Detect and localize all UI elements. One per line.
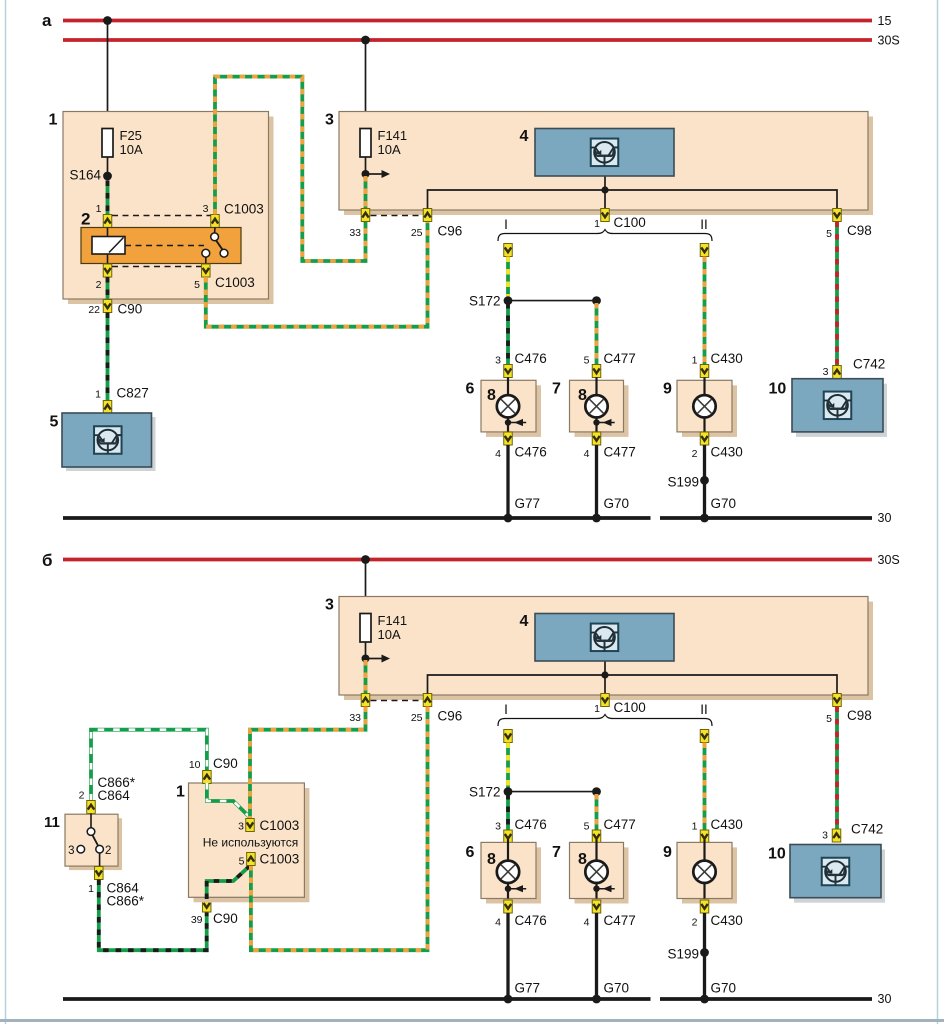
svg-text:F141: F141 [378, 128, 408, 143]
dashed link pins 33-25 [371, 215, 424, 217]
wire relay pin3 to box3 pin33 (green/orange) [215, 77, 366, 261]
svg-text:C476: C476 [515, 445, 547, 460]
svg-text:7: 7 [552, 844, 561, 861]
svg-text:6: 6 [466, 844, 475, 861]
svg-text:а: а [42, 11, 52, 30]
connector C90 pin 39 [202, 899, 211, 912]
lamp unit 9 b [682, 847, 737, 903]
svg-text:I: I [504, 702, 508, 717]
module 4 (blue box) [535, 129, 674, 177]
connector pin 1 C1003 [103, 215, 112, 228]
svg-text:C90: C90 [118, 302, 143, 317]
relay switch lever [216, 240, 223, 250]
relay 2 body [81, 228, 241, 264]
svg-text:4: 4 [584, 448, 590, 460]
svg-text:1: 1 [594, 703, 600, 715]
svg-text:C96: C96 [438, 224, 463, 239]
svg-text:3: 3 [325, 112, 334, 129]
ground wire lamp6 [506, 445, 509, 518]
module 10 icon [824, 392, 852, 420]
internal bus box3 b [428, 675, 838, 694]
box 3 (central junction box) [344, 117, 873, 216]
svg-text:1: 1 [594, 218, 600, 230]
svg-text:C477: C477 [604, 913, 636, 928]
connector pin 33 [361, 209, 370, 222]
svg-text:G70: G70 [711, 496, 737, 511]
ground node G77 [504, 514, 513, 523]
ground wire lamp9 [703, 445, 706, 518]
svg-text:C866*: C866* [107, 894, 145, 909]
switch 11 body [69, 818, 122, 870]
svg-text:C1003: C1003 [215, 275, 255, 290]
connector pin 25 C96 [423, 209, 432, 222]
connector C477 pin4 b [592, 900, 601, 913]
svg-text:4: 4 [495, 448, 501, 460]
svg-text:3: 3 [495, 821, 501, 833]
relay switch contacts [211, 233, 219, 241]
svg-text:10A: 10A [378, 627, 401, 642]
connector C477 pin 4 [592, 432, 601, 445]
svg-text:30S: 30S [878, 34, 900, 48]
svg-text:1: 1 [49, 112, 58, 129]
node S172 b [504, 787, 513, 796]
svg-text:8: 8 [578, 387, 587, 404]
connector C430 pin 1 [700, 365, 709, 378]
bus junction node [601, 186, 608, 193]
svg-text:II: II [700, 217, 708, 232]
connector pin 33 b [361, 694, 370, 707]
switch 11 contacts [87, 828, 95, 836]
svg-text:2: 2 [79, 790, 85, 802]
svg-text:C476: C476 [515, 913, 547, 928]
svg-text:1: 1 [88, 883, 94, 895]
svg-text:10: 10 [189, 759, 201, 771]
ground rail 30 b segment 2 [660, 997, 872, 1001]
svg-text:15: 15 [878, 14, 892, 28]
svg-text:C477: C477 [604, 817, 636, 832]
wire II to C430 b (green/orange) [703, 743, 707, 831]
svg-text:C827: C827 [117, 386, 149, 401]
brace under C100 [498, 230, 712, 242]
svg-text:C98: C98 [847, 223, 872, 238]
node with arrow b [362, 655, 370, 663]
connector C742 pin3 b [832, 829, 841, 842]
svg-text:30S: 30S [878, 553, 900, 567]
svg-text:2: 2 [81, 210, 90, 229]
connector C476 pin4 b [504, 900, 513, 913]
svg-text:3: 3 [325, 597, 334, 614]
internal bus box 3 [428, 190, 838, 209]
wire coil to pin2 [107, 254, 109, 264]
svg-text:33: 33 [349, 227, 361, 239]
svg-text:22: 22 [88, 304, 100, 316]
wire C98 to C742 b (green/red) [835, 707, 839, 830]
svg-text:25: 25 [411, 227, 423, 239]
svg-text:Не используются: Не используются [203, 836, 299, 850]
wire contact to pin1 [99, 853, 101, 866]
svg-text:10A: 10A [378, 142, 401, 157]
wire C98 to C742 (green/red) [835, 222, 839, 366]
module 5 (blue box) [66, 417, 156, 471]
svg-text:3: 3 [203, 203, 209, 215]
wire fuse F141 to node [365, 157, 367, 174]
svg-text:7: 7 [552, 381, 561, 398]
svg-text:4: 4 [520, 613, 529, 630]
svg-text:G77: G77 [515, 981, 541, 996]
svg-text:5: 5 [826, 228, 832, 240]
connector C476 pin3 b [504, 830, 513, 843]
ground wire lamp9 b [703, 913, 706, 999]
relay internal dashed link [125, 245, 204, 247]
svg-text:3: 3 [68, 845, 74, 857]
svg-text:30: 30 [878, 992, 892, 1006]
lamp unit 7 b [575, 847, 629, 903]
wire node to pin33 b (green/orange) [364, 660, 368, 694]
svg-text:1: 1 [692, 355, 698, 367]
svg-text:G70: G70 [604, 981, 630, 996]
wire module4 to C100 b [604, 661, 606, 694]
brace under C100 b [498, 715, 712, 727]
svg-text:б: б [42, 551, 53, 570]
svg-text:6: 6 [466, 381, 475, 398]
svg-text:2: 2 [692, 448, 698, 460]
svg-text:3: 3 [238, 821, 244, 833]
connector C430 pin2 b [700, 900, 709, 913]
ground node G70 lamp7 b [592, 995, 601, 1004]
wire pin3 to switch contact [214, 228, 216, 234]
wire S164 to relay pin 1 (green/black) [106, 181, 110, 215]
ground node G70 lamp7 [592, 514, 601, 523]
svg-text:3: 3 [822, 830, 828, 842]
connector C477 pin5 b [592, 830, 601, 843]
svg-text:S199: S199 [667, 475, 699, 490]
module 4 icon b [591, 624, 619, 652]
wire C90 to C827 (green/black) [106, 313, 110, 401]
svg-text:C430: C430 [711, 817, 743, 832]
connector C100 pin 1 [601, 209, 610, 222]
svg-text:5: 5 [584, 821, 590, 833]
lamp unit 6 b [486, 847, 541, 903]
lamp unit 6 [486, 385, 541, 437]
connector I [504, 244, 513, 257]
connector pin 3 C1003 [211, 215, 220, 228]
wire node to pin 33 (green/orange) [364, 176, 368, 209]
svg-text:C1003: C1003 [224, 202, 264, 217]
svg-text:C742: C742 [853, 357, 885, 372]
svg-text:C864: C864 [98, 788, 131, 803]
svg-text:5: 5 [826, 713, 832, 725]
svg-text:5: 5 [50, 414, 59, 431]
dashed link pins 2-5 [112, 266, 201, 268]
page frame bottom border [0, 1019, 944, 1022]
power rail 15 (red) [63, 19, 872, 23]
svg-text:11: 11 [44, 814, 60, 831]
page frame left border [5, 0, 7, 1024]
wire module4 to bus to C100 [604, 176, 606, 209]
node S199 b [700, 948, 709, 957]
ground wire lamp7 b [595, 913, 598, 999]
svg-text:F25: F25 [120, 128, 142, 143]
module 10 icon b [822, 858, 850, 886]
lamp unit 9 [682, 385, 737, 437]
svg-text:9: 9 [663, 844, 672, 861]
wire S172 to C476 pin3 (green/black) [506, 303, 510, 365]
connector pin 5 C1003 [202, 264, 211, 277]
svg-text:4: 4 [495, 917, 501, 929]
ground wire lamp6 b [506, 913, 509, 999]
node on rail 15 [103, 16, 112, 25]
connector II [700, 244, 709, 257]
wire relay pin5 to C96 pin25 (green/orange) [206, 222, 428, 327]
svg-text:3: 3 [495, 355, 501, 367]
connector C742 pin 3 [833, 366, 842, 379]
svg-text:C90: C90 [213, 756, 238, 771]
svg-text:S199: S199 [667, 947, 699, 962]
connector C90 pin 22 [103, 300, 112, 313]
connector pin 25 C96 b [423, 694, 432, 707]
node at branch [592, 296, 601, 305]
green/orange loop C1003 pin5 to C96 pin25 b [251, 707, 428, 951]
ground node G77 b [504, 995, 513, 1004]
svg-text:1: 1 [96, 203, 102, 215]
box 3 section b [344, 602, 873, 701]
wire C90 pin39 to C1003 pin5 (green/black) [207, 865, 251, 899]
connector switch11 pin 2 [87, 801, 96, 814]
wire branch to C477 pin5 (green/orange) [595, 303, 599, 365]
dashed link pins 1-3 [112, 215, 211, 217]
page frame right border [937, 0, 939, 1024]
wire C90 pin10 to C1003 pin3 (green/white) [207, 783, 249, 817]
fuse F141 10A [360, 129, 371, 158]
connector pin 2 C1003 [103, 264, 112, 277]
svg-text:C430: C430 [711, 351, 743, 366]
node S199 [700, 476, 709, 485]
node on rail 30S [361, 36, 370, 45]
svg-text:33: 33 [349, 712, 361, 724]
svg-text:C430: C430 [711, 913, 743, 928]
svg-text:C100: C100 [614, 215, 646, 230]
svg-text:C98: C98 [847, 708, 872, 723]
svg-text:8: 8 [487, 387, 496, 404]
node S172 [504, 296, 513, 305]
ground rail 30 b segment 1 [63, 997, 651, 1001]
ground rail 30 segment 1 [63, 516, 651, 520]
svg-text:C477: C477 [604, 351, 636, 366]
connector C476 pin 3 [504, 365, 513, 378]
svg-text:1: 1 [95, 389, 101, 401]
svg-text:2: 2 [96, 279, 102, 291]
svg-text:C477: C477 [604, 445, 636, 460]
wire rail15 to fuse F25 [107, 21, 109, 129]
connector switch11 pin 1 [95, 867, 104, 880]
module 4 icon [591, 139, 619, 167]
branch node b [592, 787, 601, 796]
module 10 (blue box) [796, 384, 887, 437]
svg-text:F141: F141 [378, 613, 408, 628]
connector C90 pin 10 [203, 771, 212, 784]
svg-text:I: I [504, 217, 508, 232]
branch wire b [508, 791, 597, 793]
wire fuse to node b [365, 642, 367, 659]
svg-text:30: 30 [878, 511, 892, 525]
wire pin1 to coil [107, 228, 109, 237]
wire fuse F25 to S164 [107, 157, 109, 172]
svg-text:C476: C476 [515, 351, 547, 366]
green/orange loop pin33 to C1003 pin3 b [250, 707, 366, 819]
box 1 (fuse/relay unit) [68, 117, 274, 305]
svg-text:C100: C100 [614, 700, 646, 715]
connector C1003 pin 5 b [247, 853, 256, 866]
wire switch11 pin2 to C90 pin10 (green/white) [91, 730, 207, 801]
connector I b [504, 730, 513, 743]
fuse F25 10A [102, 129, 113, 158]
svg-text:1: 1 [176, 784, 185, 801]
svg-text:C1003: C1003 [260, 818, 300, 833]
svg-text:C96: C96 [438, 709, 463, 724]
svg-text:C430: C430 [711, 445, 743, 460]
svg-text:4: 4 [584, 917, 590, 929]
svg-text:8: 8 [578, 851, 587, 868]
module 10 b (blue box) [794, 850, 885, 903]
wire pin2 to C90 (green/black) [106, 277, 110, 300]
svg-text:C90: C90 [213, 911, 238, 926]
connector C430 pin1 b [700, 830, 709, 843]
connector C476 pin 4 [504, 432, 513, 445]
svg-text:C1003: C1003 [260, 852, 300, 867]
svg-text:4: 4 [520, 128, 529, 145]
svg-text:39: 39 [191, 914, 203, 926]
svg-text:5: 5 [239, 856, 245, 868]
svg-text:G77: G77 [515, 496, 541, 511]
connector C477 pin 5 [592, 365, 601, 378]
connector C100 pin1 b [601, 694, 610, 707]
svg-text:1: 1 [692, 821, 698, 833]
power rail 30S section b (red) [63, 558, 872, 562]
lamp unit 7 [575, 385, 629, 437]
svg-text:8: 8 [487, 851, 496, 868]
wire I to S172 (green/yellow) [506, 257, 510, 299]
relay coil [92, 237, 125, 255]
connector II b [700, 730, 709, 743]
wire branch to C477 b (green/orange) [595, 794, 599, 830]
svg-text:10A: 10A [120, 142, 143, 157]
dashed link 33-25 b [371, 700, 424, 702]
connector C430 pin 2 [700, 432, 709, 445]
svg-text:C476: C476 [515, 817, 547, 832]
svg-text:C742: C742 [851, 822, 883, 837]
svg-text:25: 25 [411, 712, 423, 724]
module 4 b (blue box) [535, 614, 674, 662]
wire II to C430 pin1 (green/orange) [703, 257, 707, 365]
wire S172 branch horizontal [508, 300, 597, 302]
box 1 section b (not used unit) [194, 788, 310, 902]
wire rail30S to fuse F141 [365, 40, 367, 129]
node on rail 30S b [361, 555, 370, 564]
svg-text:10: 10 [769, 381, 787, 398]
svg-text:3: 3 [823, 366, 829, 378]
connector C98 pin 5 [833, 209, 842, 222]
wire rail to fuse F141 b [365, 560, 367, 614]
wire switch11 pin1 to C90 pin39 (green/black) [99, 880, 207, 951]
svg-text:10: 10 [768, 846, 786, 863]
svg-text:5: 5 [194, 279, 200, 291]
svg-text:9: 9 [663, 381, 672, 398]
node with arrow under F141 [362, 170, 370, 178]
ground node G70 lamp9 [700, 514, 709, 523]
wire pin2 to switch contact [90, 814, 92, 828]
ground node G70 lamp9 b [700, 995, 709, 1004]
ground wire lamp7 [595, 445, 598, 518]
svg-text:S172: S172 [469, 785, 501, 800]
svg-text:5: 5 [584, 355, 590, 367]
svg-text:S172: S172 [469, 294, 501, 309]
wire switch to pin5 [205, 257, 207, 264]
svg-text:G70: G70 [711, 981, 737, 996]
wire S172 to C476 b (green/black) [506, 794, 510, 830]
power rail 30S (red) [63, 38, 872, 42]
svg-text:2: 2 [692, 917, 698, 929]
connector C827 pin 1 [103, 401, 112, 414]
switch 11 lever [92, 835, 98, 846]
bus node b [601, 671, 608, 678]
svg-text:2: 2 [105, 845, 111, 857]
connector C98 pin5 b [833, 694, 842, 707]
node S164 [103, 172, 112, 181]
module 5 icon [94, 426, 122, 454]
ground rail 30 segment 2 [660, 516, 872, 520]
fuse F141 10A b [360, 614, 371, 643]
svg-text:S164: S164 [69, 168, 101, 183]
connector C1003 pin 3 b [246, 819, 255, 832]
svg-text:II: II [700, 702, 708, 717]
svg-text:G70: G70 [604, 496, 630, 511]
wire I to S172 b (green/yellow) [506, 743, 510, 790]
